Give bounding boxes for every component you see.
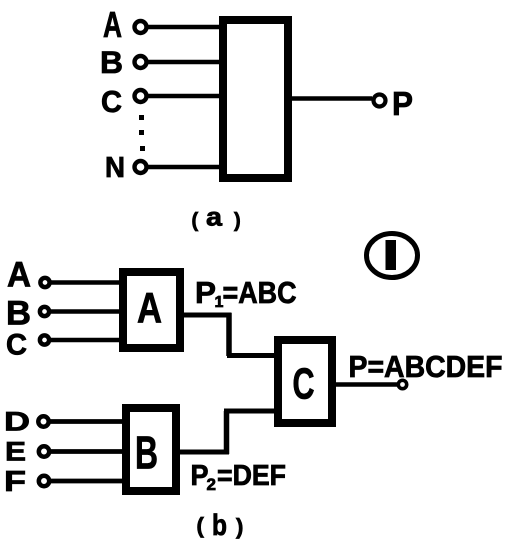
svg-text:): ): [234, 210, 241, 232]
gate C box: [278, 340, 332, 423]
wire input A (block a): [148, 25, 224, 30]
svg-text:A: A: [103, 4, 122, 45]
wire input C (block b): [51, 338, 124, 343]
svg-text:(: (: [197, 513, 205, 538]
svg-text:E: E: [5, 437, 26, 467]
input terminal E: [39, 446, 49, 456]
input terminal A (block a): [135, 21, 147, 33]
svg-text:B: B: [100, 44, 123, 80]
gate A box: [123, 272, 180, 348]
svg-text:(: (: [192, 210, 199, 232]
input terminal C (block b): [40, 335, 49, 344]
svg-text:A: A: [7, 255, 31, 295]
input terminal A (block b): [40, 278, 49, 287]
wire gate A to gate C vertical: [226, 313, 232, 356]
svg-text:C: C: [6, 329, 27, 362]
svg-text:C: C: [101, 84, 122, 119]
input terminal F: [39, 476, 49, 486]
svg-text:B: B: [135, 427, 158, 479]
wire input N (block a): [148, 165, 224, 170]
wire input B (block b): [51, 309, 124, 314]
output terminal P (block a): [374, 95, 386, 107]
wire input D: [50, 419, 126, 424]
svg-text:): ): [236, 514, 243, 539]
input terminal N (block a): [135, 161, 147, 173]
wire input A (block b): [51, 280, 124, 285]
svg-text:P: P: [392, 85, 413, 122]
svg-text:b: b: [212, 509, 227, 542]
wire input C (block a): [148, 94, 224, 99]
svg-text:D: D: [4, 407, 30, 437]
ellipsis dots between C and N: [139, 115, 145, 151]
svg-text:=ABC: =ABC: [223, 275, 297, 310]
svg-text:B: B: [6, 295, 31, 333]
gate B box: [126, 408, 176, 491]
input terminal B (block b): [40, 307, 49, 316]
block rectangle (a): [223, 20, 288, 178]
svg-text:P=ABCDEF: P=ABCDEF: [349, 349, 503, 384]
output terminal P (block b): [398, 380, 406, 388]
svg-text:A: A: [137, 286, 162, 333]
svg-text:=DEF: =DEF: [217, 460, 286, 492]
svg-text:N: N: [105, 152, 125, 184]
svg-text:C: C: [293, 361, 315, 409]
input terminal C (block a): [135, 90, 147, 102]
input terminal D: [38, 416, 48, 426]
wire into gate C upper input: [227, 353, 278, 358]
wire gate B output horizontal: [180, 450, 229, 455]
figure number 1 in circle: [367, 234, 418, 278]
svg-text:F: F: [4, 466, 26, 498]
input terminal B (block a): [135, 56, 147, 68]
wire into gate C lower input: [224, 409, 278, 414]
wire input F: [50, 479, 126, 484]
wire input B (block a): [148, 60, 224, 65]
wire gate A output horizontal: [184, 313, 232, 318]
wire gate B to gate C vertical: [224, 411, 230, 454]
wire output P (block a): [291, 96, 372, 101]
svg-text:2: 2: [207, 475, 216, 494]
svg-text:a: a: [206, 202, 223, 232]
wire input E: [50, 449, 126, 454]
svg-text:P: P: [195, 275, 216, 310]
wire gate C output: [332, 382, 399, 386]
